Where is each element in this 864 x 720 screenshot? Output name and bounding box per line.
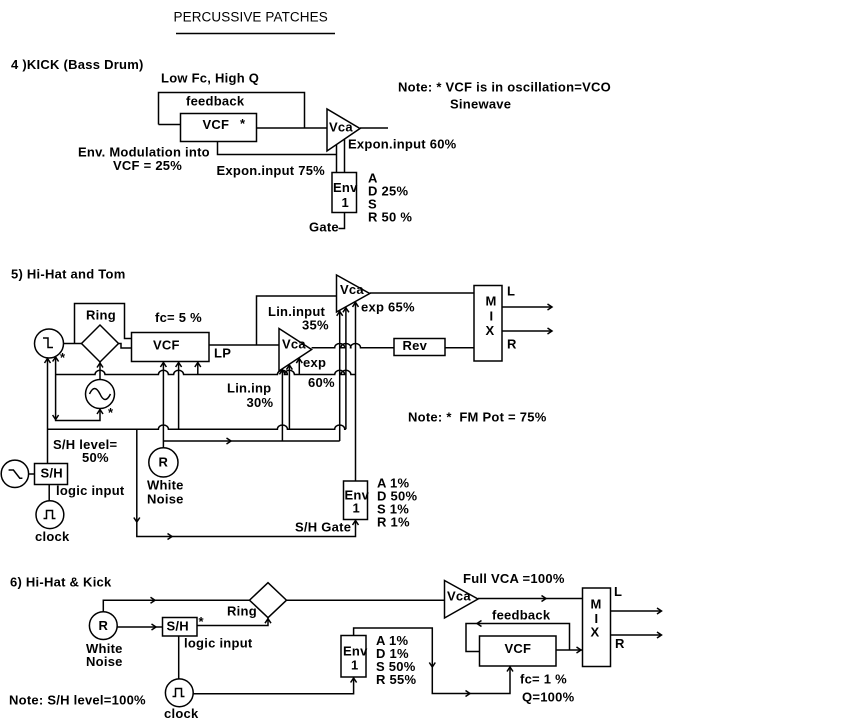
svg-text:White: White [147, 478, 184, 493]
svg-text:Ring: Ring [227, 604, 257, 619]
svg-text:exp: exp [303, 355, 326, 370]
svg-text:logic input: logic input [184, 636, 253, 651]
svg-text:Lin.inp: Lin.inp [227, 381, 271, 396]
svg-text:Rev: Rev [403, 338, 428, 353]
svg-text:Vca: Vca [329, 120, 353, 135]
svg-text:Note: * FM Pot = 75%: Note: * FM Pot = 75% [408, 410, 547, 425]
svg-text:30%: 30% [247, 395, 274, 410]
svg-text:R: R [507, 337, 517, 352]
svg-text:fc= 1 %: fc= 1 % [520, 672, 567, 687]
svg-text:VCF: VCF [153, 338, 180, 353]
svg-text:*: * [108, 405, 114, 420]
svg-text:PERCUSSIVE PATCHES: PERCUSSIVE PATCHES [174, 10, 328, 25]
svg-text:Env: Env [333, 180, 358, 195]
svg-text:X: X [486, 323, 495, 338]
svg-text:X: X [591, 625, 600, 640]
svg-text:Vca: Vca [447, 589, 471, 604]
svg-text:clock: clock [35, 529, 70, 544]
svg-text:feedback: feedback [186, 94, 245, 109]
svg-text:1: 1 [353, 501, 360, 516]
svg-text:R 1%: R 1% [377, 515, 410, 530]
svg-text:4 )KICK (Bass Drum): 4 )KICK (Bass Drum) [11, 57, 144, 72]
svg-text:R: R [159, 455, 169, 470]
svg-text:Note: S/H level=100%: Note: S/H level=100% [9, 693, 146, 708]
svg-text:L: L [507, 284, 515, 299]
svg-text:clock: clock [164, 706, 199, 720]
svg-text:1: 1 [342, 195, 349, 210]
svg-text:R: R [615, 636, 625, 651]
svg-text:feedback: feedback [492, 608, 551, 623]
svg-text:Ring: Ring [86, 308, 116, 323]
svg-text:*: * [240, 116, 246, 131]
svg-text:35%: 35% [302, 318, 329, 333]
svg-text:Expon.input 75%: Expon.input 75% [217, 163, 326, 178]
svg-text:Env: Env [343, 644, 368, 659]
svg-text:R 50 %: R 50 % [368, 210, 412, 225]
svg-text:Low Fc, High Q: Low Fc, High Q [161, 71, 259, 86]
svg-text:Gate: Gate [309, 220, 339, 235]
svg-text:exp 65%: exp 65% [361, 300, 415, 315]
svg-text:Noise: Noise [147, 492, 184, 507]
svg-text:logic input: logic input [56, 483, 125, 498]
svg-text:VCF = 25%: VCF = 25% [113, 158, 182, 173]
svg-text:VCF: VCF [505, 641, 532, 656]
svg-text:S/H: S/H [167, 619, 189, 634]
svg-text:Expon.input 60%: Expon.input 60% [348, 137, 457, 152]
svg-text:Full VCA =100%: Full VCA =100% [463, 571, 565, 586]
svg-text:Vca: Vca [340, 282, 364, 297]
svg-text:Vca: Vca [282, 337, 306, 352]
svg-text:M: M [591, 597, 602, 612]
svg-text:S/H: S/H [41, 466, 63, 481]
svg-text:Noise: Noise [86, 654, 123, 669]
svg-text:Note: * VCF is in oscillation=: Note: * VCF is in oscillation=VCO [398, 80, 611, 95]
svg-text:I: I [490, 309, 494, 324]
svg-text:LP: LP [214, 346, 231, 361]
svg-text:*: * [60, 350, 66, 365]
svg-text:fc= 5 %: fc= 5 % [155, 310, 202, 325]
svg-text:R 55%: R 55% [376, 672, 416, 687]
svg-text:L: L [614, 584, 622, 599]
svg-text:Sinewave: Sinewave [450, 97, 511, 112]
svg-text:60%: 60% [308, 375, 335, 390]
svg-text:Q=100%: Q=100% [522, 690, 575, 705]
svg-text:VCF: VCF [203, 117, 230, 132]
svg-text:R: R [99, 618, 109, 633]
svg-text:*: * [199, 614, 205, 629]
svg-text:6) Hi-Hat & Kick: 6) Hi-Hat & Kick [10, 575, 112, 590]
svg-text:1: 1 [351, 658, 358, 673]
svg-text:5) Hi-Hat and Tom: 5) Hi-Hat and Tom [11, 267, 126, 282]
svg-text:50%: 50% [82, 450, 109, 465]
svg-text:M: M [486, 294, 497, 309]
svg-text:S/H Gate: S/H Gate [295, 520, 351, 535]
